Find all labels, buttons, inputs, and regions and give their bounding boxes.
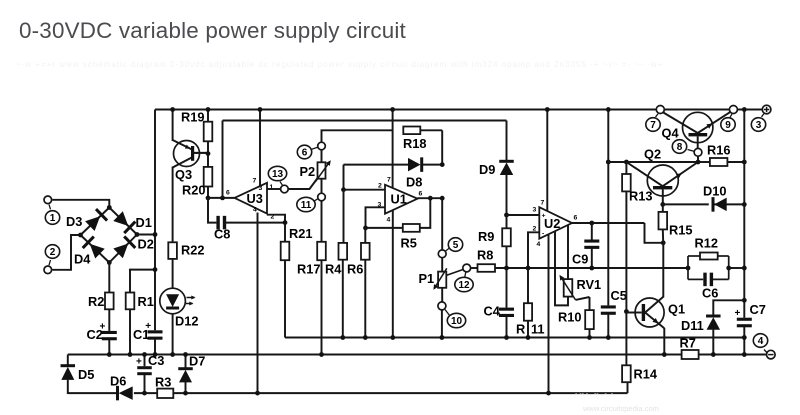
svg-text:4: 4 [758,336,764,347]
svg-text:3: 3 [756,120,762,131]
wire bridge bottom to R2 [108,263,110,293]
resistor R4 [325,243,347,277]
node R6 bus [363,335,368,340]
diode D1 [113,211,152,233]
svg-text:R22: R22 [181,243,204,258]
capacitor C3 [136,353,164,375]
svg-text:P1: P1 [419,271,435,286]
node D7 bottom [183,391,188,396]
wire U3 pin2 jog [267,215,285,223]
badge 9 [721,114,735,132]
diode D11 [681,316,721,333]
wire node to R9 [506,215,508,228]
terminal 3 plus [762,105,771,114]
wire U1 output [418,197,443,199]
wire RV1 return [555,232,568,306]
terminal 6 circle [318,142,326,150]
resistor R20 [182,167,212,198]
capacitor C8 [214,216,230,242]
svg-text:6: 6 [419,191,423,198]
badge 12 [455,272,473,291]
wire circle5 to P1 [441,258,443,272]
wire P2 wiper to circle13 [288,178,318,190]
wire U2 pin7 riser [546,110,548,211]
svg-text:+: + [100,322,106,333]
op-amp U3 [226,178,275,221]
svg-text:R3: R3 [155,375,171,390]
svg-text:D6: D6 [110,374,126,389]
resistor R5 [401,224,420,251]
capacitor C4 [484,304,515,319]
wire bridge right to frame [137,234,155,236]
wire D8 left drop [343,165,345,190]
node Q3 rail [170,107,175,112]
transistor Q3 [173,140,208,182]
wire R8 node to C4 [506,268,508,308]
resistor R14 [622,365,658,382]
svg-text:5: 5 [453,240,459,251]
wire C5 to bus [607,314,609,337]
op-amp U2 [533,200,578,249]
svg-text:D8: D8 [406,175,422,190]
svg-text:D3: D3 [66,214,82,229]
capacitor C7 [735,302,766,327]
resistor R15 [659,212,693,238]
node C3 rail [142,352,147,357]
badge 5 [446,238,463,252]
wire U3 feedback riser [222,121,224,198]
wire R21 to bus [284,260,286,338]
svg-text:4: 4 [253,207,257,214]
capacitor C9 [572,240,599,267]
wire V+ right drop [743,110,745,318]
terminal 8 circle [694,148,702,156]
svg-text:R14: R14 [634,367,658,382]
wire U1 pin7 riser [392,110,394,189]
wire R5 left [366,227,403,229]
node C5 bus [606,335,611,340]
wire C3 leads [144,355,146,394]
wire D8 line [344,164,443,166]
wire U3 pin4 drop [257,213,259,394]
svg-text:D10: D10 [703,184,726,199]
svg-text:~-w +=+r www schematic diag: ~-w +=+r www schematic diagram 0-30vdc a… [16,60,663,69]
wire box right link [729,267,745,269]
wire R13 line [608,161,744,163]
wire bridge bottom-left edge [81,235,110,263]
svg-text:D12: D12 [175,314,198,329]
node R13 line left [606,160,611,165]
badge 8 [672,140,694,154]
svg-text:R18: R18 [403,136,426,151]
svg-text:C9: C9 [572,252,588,267]
wire U3 pin1 to circle13 [267,188,281,190]
terminal 5 circle [438,250,446,258]
node U1 out [440,196,445,201]
svg-text:U3: U3 [247,191,263,206]
wire top positive rail [155,109,762,111]
decorative [575,391,659,413]
node bridge top [107,205,112,210]
potentiometer P1 [419,268,447,290]
node R1 jog [153,267,158,272]
wire R2 to C2 [108,309,110,331]
node U1 out fb [428,196,433,201]
op-amp U1 [378,177,423,224]
transistor Q2 [626,147,698,197]
node C4 bus [504,335,509,340]
node C7 rail [742,352,747,357]
node R10 bus [587,335,592,340]
wire C2 to rail [108,340,110,355]
badge 3 [751,114,765,132]
wire R11 stem [527,268,529,338]
resistor R10 [558,310,594,330]
resistor R21 [281,226,313,260]
wire output jog down [645,223,664,243]
wire V+ branch [607,110,609,306]
wire R15 stem [662,204,664,242]
svg-text:RV1: RV1 [577,277,602,292]
svg-text:7: 7 [541,200,545,207]
svg-text:P2: P2 [300,164,316,179]
resistor R12 [695,236,718,260]
node R11 bus [526,335,531,340]
svg-text:C4: C4 [484,304,501,319]
terminal 2 [44,266,52,274]
wire P1 wiper to circle12 [446,270,463,276]
svg-text:-: - [542,231,544,238]
node U3 pin7 rail [258,107,263,112]
svg-text:C7: C7 [750,302,766,317]
svg-text:6: 6 [226,190,230,197]
svg-text:2: 2 [50,247,56,258]
svg-text:0-30VDC variable power supply: 0-30VDC variable power supply circuit [19,18,407,43]
wire U1 pin3 jog [366,207,386,228]
svg-text:+: + [145,321,151,332]
wire terminal1 to bridge top [52,200,109,208]
wire R1 to rail [129,309,131,354]
svg-text:D11: D11 [681,318,704,333]
wire R22 to D12 [172,259,174,289]
capacitor C5 [601,288,627,315]
wire rail to Q3 collector [172,110,174,142]
svg-text:R1: R1 [138,294,154,309]
terminal 11 circle [318,193,326,201]
wire circle6 to P2 [321,150,323,163]
terminal 13 circle [281,185,289,193]
resistor R16 [707,143,730,167]
node D10 right [742,202,747,207]
svg-text:6: 6 [302,148,308,159]
node R19 R20 base [206,151,211,156]
diode D7 [178,354,205,383]
node R1 rail [128,352,133,357]
node C9 top [589,221,594,226]
terminal 1 [44,196,52,204]
svg-text:7: 7 [387,177,391,184]
badge 4 [753,334,767,353]
wire R17 to lower rail [321,260,323,354]
svg-text:R2: R2 [88,294,104,309]
wire U2 pin4 drop [548,235,550,394]
wire C9 to R8 line [591,248,593,268]
capacitor C6 [702,273,718,301]
resistor R18 [403,127,426,152]
node bridge bottom [107,260,112,265]
badge 13 [268,166,286,185]
terminal 4 minus [767,350,776,359]
wire D12 to rail [172,313,174,354]
node U2 pin7 rail [545,107,550,112]
resistor R19 [181,110,212,142]
svg-text:2: 2 [378,183,382,190]
node Q1 base [624,309,629,314]
node D12 rail [170,352,175,357]
wire P1 to circle10 [441,288,443,302]
capacitor C2 [87,322,117,343]
wire bridge bottom-right edge [109,235,137,263]
wire to U2 pin3 [507,214,540,216]
node bridge right [135,232,140,237]
svg-text:1: 1 [50,213,56,224]
node U2 pin4 bottom rail [546,391,551,396]
svg-text:www.circuitspedia.com: www.circuitspedia.com [582,404,659,413]
node R11 top [526,266,531,271]
svg-text:9: 9 [725,120,731,131]
wire circle10 to bus [441,310,443,338]
node D9 U2pin3 [504,213,509,218]
node C8 top tie [220,196,225,201]
node C2 rail [107,352,112,357]
wire lower 0V rail [68,354,767,356]
wire RV1 top stem [567,225,569,279]
wire P2 to circle11 [321,179,323,194]
node box right tie [742,266,747,271]
wire circle11 to R17 [321,201,323,242]
badge 2 [45,245,59,266]
svg-text:- -- - . -- . - .-: - -- - . -- . - .- [575,391,614,398]
wire left frame vertical [154,110,156,355]
svg-text:7: 7 [650,120,656,131]
wire bridge top-right edge [109,208,137,235]
badge 7 [646,114,660,132]
wire R6 stem [364,228,366,338]
wire D11 to lower rail [712,329,714,355]
svg-text:R: R [516,322,525,337]
svg-text:R17: R17 [297,262,320,277]
decorative [16,60,663,69]
resistor R2 [88,293,114,310]
svg-text:R20: R20 [182,183,205,198]
node D11 top corner [742,298,747,303]
svg-text:11: 11 [531,322,545,337]
svg-text:8: 8 [677,142,683,153]
wire C7 to buses [743,327,745,355]
svg-text:2: 2 [533,226,537,233]
svg-text:Q4: Q4 [662,126,680,141]
terminal 9 circle [729,106,737,114]
svg-text:R10: R10 [558,310,581,325]
svg-text:C6: C6 [702,286,718,301]
svg-text:R13: R13 [629,189,652,204]
wire U1 pin4 drop [392,210,394,337]
node R17 rail [319,352,324,357]
node D7 rail [183,352,188,357]
svg-text:R7: R7 [680,336,696,351]
node U1 pin4 bus [390,335,395,340]
node R20 out [206,196,211,201]
svg-text:R6: R6 [347,262,363,277]
title text [19,18,407,43]
wire base node to R14 [625,312,627,366]
node Q1 emitter rail [662,352,667,357]
node V+ rail [606,107,611,112]
node R21 top [283,220,288,225]
badge 6 [297,145,317,159]
svg-text:C8: C8 [214,227,230,242]
node U3 pin4 bottom rail [255,391,260,396]
badge 10 [445,310,466,328]
svg-text:11: 11 [301,200,312,211]
trimmer RV1 [560,275,602,300]
wire D9 drop [506,121,508,162]
svg-text:C5: C5 [611,288,627,303]
svg-text:D4: D4 [74,252,91,267]
svg-text:R5: R5 [401,236,417,251]
LED D12 [160,288,199,328]
wire U2 pin2 jog [528,232,539,268]
wire node to R4 [342,190,345,338]
resistor R3 [155,375,173,399]
badge 1 [45,204,59,224]
wire C8 right to R21 top [225,222,285,224]
svg-text:Q3: Q3 [175,167,192,182]
wire output drop to P1 [441,198,443,250]
svg-text:R19: R19 [181,110,204,125]
wire terminal2 to bridge left [52,235,80,270]
resistor R9 [478,228,511,246]
node C9 bottom [589,266,594,271]
node Q2 base node [660,202,665,207]
wire R10 to bus [589,329,591,337]
badge 11 [297,197,318,211]
diode D8 [406,157,422,189]
svg-text:U1: U1 [391,192,407,207]
capacitor C1 [133,321,163,342]
wire P2 top elbow [322,130,393,142]
wire R18 right elbow [420,130,442,164]
svg-text:D5: D5 [78,367,94,382]
resistor R7 [680,336,699,360]
wire C9 stem [591,223,593,240]
svg-text:U2: U2 [544,216,560,231]
diode D5 [61,366,95,382]
terminal 7 circle [656,106,664,114]
svg-text:12: 12 [458,280,470,291]
wire Q1 emitter drop [663,328,665,355]
svg-text:Q1: Q1 [668,302,685,317]
wire D10 line [663,203,745,205]
node R15 bottom [661,240,666,245]
diode D4 [74,237,105,267]
wire R9 to R8 line [506,246,508,268]
wire U3 pin6 line [208,197,235,199]
svg-text:D7: D7 [189,354,205,369]
parallel box R12 C6 [688,256,729,279]
wire R19 to R20 [207,141,209,167]
node R5 left [363,226,368,231]
diode D9 [479,161,514,177]
diode D6 [110,374,133,401]
resistor R17 [297,242,326,277]
svg-text:D1: D1 [136,215,152,230]
potentiometer P2 [300,160,331,182]
svg-text:6: 6 [574,215,578,222]
wire C8 hook [208,198,216,223]
svg-text:R15: R15 [669,223,692,238]
node C1 rail [153,352,158,357]
wire inner top line [223,120,507,122]
svg-text:7: 7 [253,178,257,185]
node box right [726,266,731,271]
node Q4 base node [696,160,701,165]
wire R21 stem [284,223,286,242]
node C3 bottom [142,391,147,396]
svg-text:+: + [542,213,546,220]
diode D3 [66,209,107,231]
node U1 pin7 rail [390,107,395,112]
node R4 bus [340,335,345,340]
svg-text:R21: R21 [289,226,312,241]
svg-text:C3: C3 [148,353,164,368]
node bridge left [78,233,83,238]
resistor R22 [168,242,204,259]
svg-text:R16: R16 [707,143,730,158]
wire U3 pin7 riser [259,110,261,187]
wire RV1 wiper to R10 [576,297,590,310]
wire D11 elbow [713,300,744,316]
wire D9 to U2 node [506,174,508,215]
node D8 right [440,162,445,167]
wire R20 to U3 in [207,187,209,198]
wire R5 right up [420,198,431,228]
wire circle8 to R16 node [697,156,699,162]
resistor R13 [622,174,652,204]
svg-text:3: 3 [259,185,263,192]
wire R1 top jog [130,270,155,293]
svg-text:R4: R4 [325,262,342,277]
diode D2 [113,236,154,258]
node P1 bus [440,335,445,340]
diode D10 [703,184,727,212]
node R19 rail [206,107,211,112]
svg-text:13: 13 [272,169,284,180]
svg-text:R9: R9 [478,229,494,244]
svg-text:4: 4 [537,241,541,248]
node C7 bus [742,335,747,340]
svg-text:+: + [735,308,741,319]
svg-text:10: 10 [451,316,463,327]
svg-text:Q2: Q2 [644,147,661,162]
node rail 744 [742,107,747,112]
svg-text:+: + [136,357,142,368]
wire D7 leads [185,355,187,394]
node frame-bridge junction [153,232,158,237]
wire internal ground bus [285,337,744,339]
terminal 12 circle [463,264,471,272]
wire Q3 emitter to R22 [172,167,174,243]
